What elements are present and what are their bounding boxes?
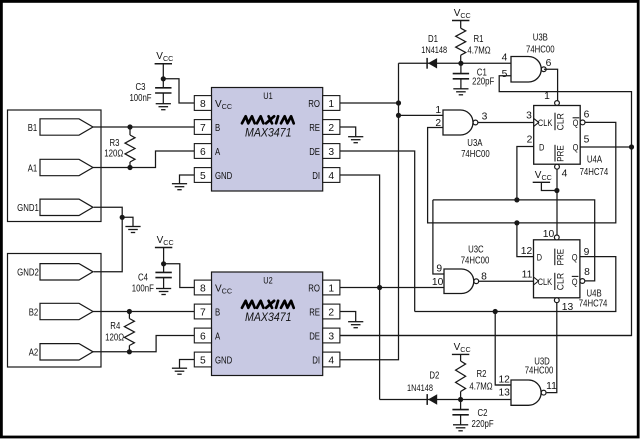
svg-text:12: 12 xyxy=(498,374,510,385)
svg-text:PRE: PRE xyxy=(555,249,565,266)
U2 pin 2 box xyxy=(323,304,340,319)
wire D1 line xyxy=(399,62,512,64)
wire C4 node to U2 pin8 xyxy=(164,264,195,288)
ground U2 GND xyxy=(172,368,187,374)
svg-text:1: 1 xyxy=(328,99,334,110)
ground U2 RE xyxy=(348,322,363,328)
U1 pin 5 box xyxy=(194,168,211,183)
svg-text:220pF: 220pF xyxy=(472,77,494,88)
svg-text:C4: C4 xyxy=(138,272,148,283)
svg-text:GND: GND xyxy=(215,356,232,367)
wire U1.RE to ground xyxy=(340,127,356,137)
U1 pin 6 box xyxy=(194,144,211,159)
svg-text:3: 3 xyxy=(526,110,532,121)
connector pin GND2 xyxy=(17,264,93,280)
flip-flop U4B 74HC74 xyxy=(534,235,608,309)
nand gate U3D 74HC00 xyxy=(511,357,554,406)
svg-text:GND: GND xyxy=(215,171,232,182)
svg-text:100nF: 100nF xyxy=(129,93,151,104)
node GND1-GND2 xyxy=(120,215,125,220)
svg-text:8: 8 xyxy=(481,271,487,282)
wire node to C2 xyxy=(460,400,462,410)
svg-text:8: 8 xyxy=(584,267,590,278)
node PRE Vcc xyxy=(554,188,559,193)
svg-text:1: 1 xyxy=(544,91,550,102)
svg-text:13: 13 xyxy=(498,388,510,399)
svg-text:74HC74: 74HC74 xyxy=(580,167,609,178)
Vcc symbol R2 xyxy=(452,342,471,355)
svg-text:120Ω: 120Ω xyxy=(104,148,123,159)
wire U4B.D branch xyxy=(517,223,534,257)
svg-text:4: 4 xyxy=(328,171,334,182)
svg-text:13: 13 xyxy=(562,302,574,313)
wire U4B CLR to U3D out xyxy=(547,303,557,393)
svg-text:4: 4 xyxy=(562,169,568,180)
svg-text:6: 6 xyxy=(200,147,206,158)
U2 pin 4 box xyxy=(323,352,340,367)
svg-text:2: 2 xyxy=(527,134,533,145)
node C3-Vcc xyxy=(161,76,166,81)
svg-text:RO: RO xyxy=(308,284,320,295)
U2 pin 7 box xyxy=(194,304,211,319)
svg-text:D1: D1 xyxy=(428,34,438,45)
U3D pin labels xyxy=(498,374,557,398)
node Q5 bus xyxy=(629,144,634,149)
wire U3B pin5 net xyxy=(340,76,632,336)
wire U2.RE to ground xyxy=(340,312,356,322)
svg-text:A: A xyxy=(215,147,220,158)
node U4A.D net xyxy=(514,197,519,202)
wire U3C out to U4B CLK xyxy=(479,280,534,282)
connector pin A1 xyxy=(28,159,93,175)
wire node to C1 xyxy=(460,63,462,73)
svg-text:RE: RE xyxy=(309,123,320,134)
U1 pin 4 box xyxy=(323,168,340,183)
wire U1.DE down xyxy=(340,151,415,312)
svg-text:3: 3 xyxy=(328,331,334,342)
U2 pin 8 box xyxy=(194,280,211,295)
wire gnd branch xyxy=(122,217,133,226)
svg-text:C2: C2 xyxy=(478,408,488,419)
svg-text:10: 10 xyxy=(432,277,444,288)
U1 pin 2 box xyxy=(323,120,340,135)
wire Vcc PRE xyxy=(541,182,557,190)
svg-text:6: 6 xyxy=(200,331,206,342)
wire D2 line xyxy=(380,399,511,401)
U1 pin 3 box xyxy=(323,144,340,159)
resistor R4 120ohm xyxy=(105,312,134,352)
svg-text:MAX3471: MAX3471 xyxy=(245,125,292,139)
svg-text:4: 4 xyxy=(328,355,334,366)
ground C4 xyxy=(156,289,171,295)
svg-text:B: B xyxy=(215,307,220,318)
wire B1 to U1.B xyxy=(93,126,194,128)
nand gate U3A 74HC00 xyxy=(443,110,490,160)
svg-text:4: 4 xyxy=(502,53,508,64)
wire U4A.D net horiz xyxy=(433,200,595,281)
transceiver U2 MAX3471 xyxy=(212,272,323,376)
svg-text:1: 1 xyxy=(435,105,441,116)
U1 pin 7 box xyxy=(194,120,211,135)
wire A2 to U2.A xyxy=(93,336,194,352)
ground U1 GND xyxy=(172,184,187,190)
node A1-R3 xyxy=(127,165,132,170)
node B2-R4 xyxy=(127,309,132,314)
node RO1 xyxy=(396,100,401,105)
svg-text:74HC00: 74HC00 xyxy=(461,256,490,267)
wire U1.RO node xyxy=(340,102,399,104)
svg-text:4.7MΩ: 4.7MΩ xyxy=(469,382,493,393)
svg-text:CLR: CLR xyxy=(555,273,565,290)
U4A pin number labels xyxy=(526,91,590,180)
svg-text:Q: Q xyxy=(573,118,579,129)
connector box J1 xyxy=(8,110,102,222)
svg-text:5: 5 xyxy=(200,171,206,182)
svg-text:74HC74: 74HC74 xyxy=(579,298,608,309)
resistor R3 120ohm xyxy=(104,127,135,168)
svg-text:1N4148: 1N4148 xyxy=(421,45,447,56)
capacitor C3 100nF xyxy=(129,82,171,104)
wire U3B out to U4A CLR xyxy=(544,69,558,100)
wire U3D pin12 xyxy=(495,384,511,386)
wire Vcc to R1 xyxy=(460,21,462,29)
wire Vcc to C4 xyxy=(163,248,165,273)
svg-text:MAX3471: MAX3471 xyxy=(245,310,292,324)
svg-text:8: 8 xyxy=(200,99,206,110)
wire U2 pin5 to ground xyxy=(180,360,195,369)
ground C1 xyxy=(453,89,468,95)
transceiver U1 MAX3471 xyxy=(212,88,323,192)
wire Vcc to R2 xyxy=(460,354,462,361)
resistor R2 4.7Mohm xyxy=(456,361,493,400)
svg-text:9: 9 xyxy=(584,247,590,258)
svg-text:1N4148: 1N4148 xyxy=(407,383,433,394)
svg-text:7: 7 xyxy=(200,307,206,318)
wire U2.RO to U3C xyxy=(340,287,444,289)
svg-text:B: B xyxy=(215,123,220,134)
node B1-R3 xyxy=(127,124,132,129)
connector pin GND1 xyxy=(17,199,93,215)
svg-text:7: 7 xyxy=(200,123,206,134)
node A2-R4 xyxy=(127,349,132,354)
wire U1.DI down xyxy=(340,175,380,400)
wire U4A PRE to U4B PRE xyxy=(556,169,558,235)
svg-text:9: 9 xyxy=(436,263,442,274)
wire U3C pin9 branch xyxy=(433,200,444,274)
U1 pin labels xyxy=(215,99,320,182)
capacitor C1 220pF xyxy=(453,67,495,87)
diode D2 1N4148 xyxy=(407,371,440,405)
connector box J2 xyxy=(8,254,102,368)
node D1-R1-C1 xyxy=(458,61,463,66)
svg-text:6: 6 xyxy=(546,58,552,69)
U3B pin labels xyxy=(502,53,552,81)
svg-text:2: 2 xyxy=(328,123,334,134)
svg-text:2: 2 xyxy=(328,307,334,318)
wire U3D pin12 branch xyxy=(495,312,511,386)
svg-text:8: 8 xyxy=(200,283,206,294)
wire U3A out to U4A CLK xyxy=(478,122,534,124)
connector pin B2 xyxy=(29,303,93,319)
wire to U3A pin1 xyxy=(399,114,444,116)
svg-text:5: 5 xyxy=(502,69,508,80)
wire U2.DE xyxy=(340,335,632,337)
svg-text:3: 3 xyxy=(482,112,488,123)
svg-text:CLR: CLR xyxy=(556,113,566,130)
svg-text:RE: RE xyxy=(309,307,320,318)
node RO2-DI1 xyxy=(377,285,382,290)
svg-text:C3: C3 xyxy=(136,82,146,93)
svg-text:DI: DI xyxy=(312,356,320,367)
capacitor C2 220pF xyxy=(452,408,493,430)
wire U1 pin5 to ground xyxy=(180,175,195,184)
U2 pin labels xyxy=(215,284,320,367)
svg-text:R2: R2 xyxy=(477,369,487,380)
wire U3A pin2 net xyxy=(428,122,616,222)
diode D1 1N4148 xyxy=(421,34,447,69)
svg-text:RO: RO xyxy=(308,99,320,110)
svg-text:U3B: U3B xyxy=(533,33,548,44)
U3C pin labels xyxy=(432,263,487,288)
svg-text:B1: B1 xyxy=(28,123,38,134)
svg-text:R4: R4 xyxy=(110,321,120,332)
svg-text:5: 5 xyxy=(200,355,206,366)
svg-text:Q: Q xyxy=(573,142,579,153)
U4B pin number labels xyxy=(521,229,590,313)
svg-text:Q: Q xyxy=(572,277,578,288)
U2 pin 6 box xyxy=(194,328,211,343)
node DE1 net xyxy=(493,309,498,314)
U1 pin 8 box xyxy=(194,96,211,111)
svg-text:74HC00: 74HC00 xyxy=(461,149,490,160)
nand gate U3C 74HC00 xyxy=(444,244,490,293)
connector pin A2 xyxy=(29,344,93,360)
svg-text:220pF: 220pF xyxy=(472,419,494,430)
svg-text:A: A xyxy=(215,331,220,342)
svg-text:10: 10 xyxy=(543,229,555,240)
node C4-Vcc xyxy=(161,261,166,266)
svg-text:U3C: U3C xyxy=(468,244,484,255)
svg-text:12: 12 xyxy=(521,246,533,257)
svg-text:DE: DE xyxy=(309,331,320,342)
svg-text:1: 1 xyxy=(328,283,334,294)
Vcc symbol C3 xyxy=(155,51,174,64)
wire DE1 horizontal xyxy=(415,257,616,312)
wire GND1 to GND2 xyxy=(94,207,123,271)
Vcc symbol C4 xyxy=(155,235,174,248)
svg-text:74HC00: 74HC00 xyxy=(525,365,554,376)
wire C3 node to U1 pin8 xyxy=(163,79,194,103)
svg-text:D2: D2 xyxy=(429,371,439,382)
svg-text:R1: R1 xyxy=(474,34,484,45)
wire U4A.Q to bus xyxy=(580,146,631,148)
svg-text:11: 11 xyxy=(522,269,533,280)
node D2-R2-C2 xyxy=(458,397,463,402)
connector pin B1 xyxy=(28,119,93,135)
svg-text:DE: DE xyxy=(309,147,320,158)
svg-text:U2: U2 xyxy=(263,275,272,286)
svg-text:120Ω: 120Ω xyxy=(105,333,124,344)
Vcc symbol PRE xyxy=(533,170,552,182)
U3A pin labels xyxy=(435,105,487,129)
svg-text:5: 5 xyxy=(584,134,590,145)
node U4B.D net xyxy=(514,220,519,225)
capacitor C4 100nF xyxy=(132,272,172,294)
wire C2 to ground xyxy=(460,415,462,425)
Vcc symbol R1 xyxy=(452,8,471,21)
svg-text:B2: B2 xyxy=(29,307,39,318)
wire U4A.D xyxy=(517,147,534,200)
svg-text:PRE: PRE xyxy=(556,145,566,162)
U1 pin 1 box xyxy=(323,96,340,111)
svg-text:A2: A2 xyxy=(29,347,39,358)
node RO1-U3A xyxy=(396,113,401,118)
svg-text:D: D xyxy=(539,142,544,153)
svg-text:CLK: CLK xyxy=(538,118,553,129)
wire C1 to ground xyxy=(460,79,462,89)
flip-flop U4A 74HC74 xyxy=(534,101,609,179)
wire C3 to ground xyxy=(162,93,164,104)
svg-text:6: 6 xyxy=(584,109,590,120)
nand gate U3B 74HC00 xyxy=(511,33,555,82)
U2 pin 5 box xyxy=(194,352,211,367)
wire C4 to ground xyxy=(163,278,165,289)
svg-text:4.7MΩ: 4.7MΩ xyxy=(467,46,491,57)
svg-text:Q: Q xyxy=(572,253,578,264)
ground C2 xyxy=(453,425,468,431)
ground U1 RE xyxy=(348,137,363,143)
U2 pin 3 box xyxy=(323,328,340,343)
svg-text:DI: DI xyxy=(312,171,320,182)
svg-text:GND2: GND2 xyxy=(17,267,39,278)
resistor R1 4.7Mohm xyxy=(456,28,491,63)
ground GND1 net xyxy=(125,227,140,233)
wire B2 to U2.B xyxy=(93,311,194,313)
svg-text:74HC00: 74HC00 xyxy=(526,45,555,56)
svg-text:D: D xyxy=(537,253,542,264)
U2 pin 1 box xyxy=(323,280,340,295)
svg-text:3: 3 xyxy=(328,147,334,158)
ground C3 xyxy=(156,104,171,110)
svg-text:11: 11 xyxy=(546,381,557,392)
svg-text:GND1: GND1 xyxy=(17,203,39,214)
svg-text:A1: A1 xyxy=(28,163,38,174)
svg-text:100nF: 100nF xyxy=(132,283,154,294)
svg-text:U1: U1 xyxy=(263,90,272,101)
svg-text:CLK: CLK xyxy=(538,277,553,288)
wire Vcc to C3 xyxy=(162,64,164,88)
wire A1 to U1.A xyxy=(93,151,194,168)
svg-text:U3A: U3A xyxy=(467,138,482,149)
svg-text:U4A: U4A xyxy=(587,155,602,166)
wire RO1 vertical bus to U2.DI xyxy=(340,63,399,360)
